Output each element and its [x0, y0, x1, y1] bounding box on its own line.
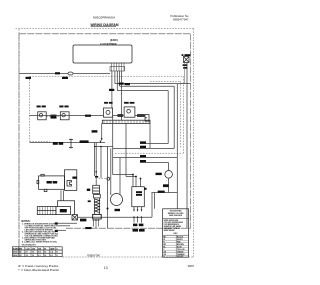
svg-text:08/07: 08/07: [188, 264, 195, 268]
svg-text:5995477947: 5995477947: [173, 17, 189, 21]
svg-text:13: 13: [104, 266, 108, 270]
svg-text:CLN: CLN: [25, 248, 30, 250]
svg-text:KEY: KEY: [174, 233, 179, 235]
svg-text:WIRE WHEN: WIRE WHEN: [164, 230, 175, 232]
svg-text:WIRING DIAGRAM: WIRING DIAGRAM: [91, 23, 119, 27]
svg-text:CIRCUIT ANALYSIS: CIRCUIT ANALYSIS: [22, 244, 36, 247]
svg-text:VIOLET: VIOLET: [177, 256, 184, 258]
svg-text:N03C0PRW6GA: N03C0PRW6GA: [93, 15, 115, 19]
svg-text:# = Fast-moving Parts: # = Fast-moving Parts: [18, 264, 59, 268]
svg-text:NOTES:: NOTES:: [21, 220, 30, 223]
svg-text:AND GAUGES: AND GAUGES: [169, 214, 183, 217]
svg-text:(EOC): (EOC): [110, 40, 118, 42]
svg-text:AMP: AMP: [50, 247, 55, 250]
svg-text:* = Non-Illustrated Parts: * = Non-Illustrated Parts: [18, 268, 60, 272]
svg-text:W: W: [44, 248, 46, 250]
svg-text:P5995477947: P5995477947: [87, 254, 100, 257]
svg-text:4. LABEL ALL WIRES PRIOR TO D: 4. LABEL ALL WIRES PRIOR TO DIS-: [22, 241, 58, 244]
svg-text:CLOCK/TIMER: CLOCK/TIMER: [100, 44, 117, 46]
